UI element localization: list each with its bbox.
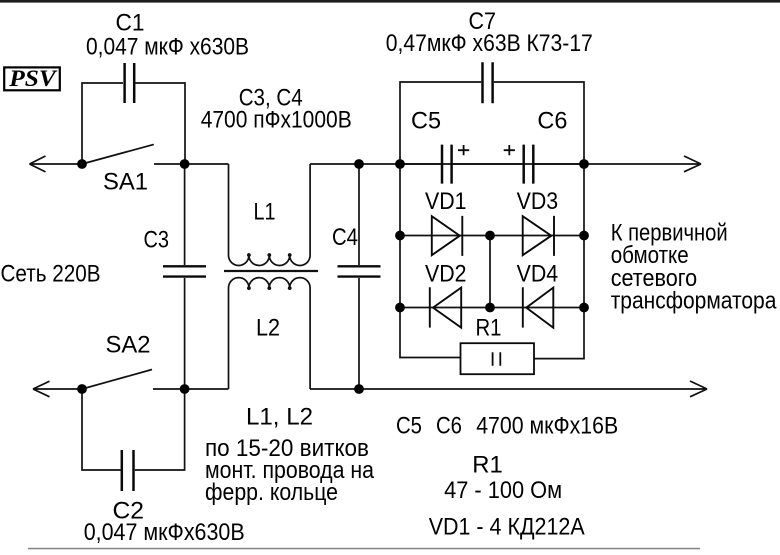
svg-text:VD1 - 4 КД212А: VD1 - 4 КД212А	[429, 514, 585, 541]
wire top rail SA1 contact to L1	[154, 163, 229, 165]
node VD2 row middle	[485, 303, 495, 313]
svg-text:C3: C3	[144, 227, 170, 254]
svg-text:4700 пФх1000В: 4700 пФх1000В	[201, 107, 352, 134]
capacitor C5 plates	[442, 145, 452, 184]
node top rail bridge left	[395, 159, 405, 169]
capacitor C2 loop wire	[82, 389, 185, 470]
capacitor C6 plates	[524, 145, 534, 184]
node bottom rail C4	[354, 384, 364, 394]
svg-text:VD1: VD1	[425, 188, 467, 215]
node top rail bridge right	[579, 159, 589, 169]
node bottom rail SA2 left	[77, 384, 87, 394]
capacitor C1 plates	[125, 63, 135, 103]
svg-text:4700 мкФх16В: 4700 мкФх16В	[476, 413, 618, 440]
capacitor C7 plates	[483, 62, 493, 103]
node VD1 row left	[395, 231, 405, 241]
capacitor C4 lead wires	[358, 164, 360, 389]
wire top rail C5 C6 section	[400, 163, 584, 165]
svg-text:ферр. кольце: ферр. кольце	[205, 479, 338, 506]
svg-text:C5: C5	[411, 108, 441, 135]
diode VD3	[523, 216, 554, 256]
svg-text:С6: С6	[436, 413, 462, 440]
node VD2 row left	[395, 303, 405, 313]
svg-text:SA1: SA1	[103, 169, 148, 196]
diode VD1	[432, 216, 463, 256]
svg-text:VD3: VD3	[517, 188, 559, 215]
node bottom rail C3	[180, 384, 190, 394]
node VD1 row middle	[485, 231, 495, 241]
wire bridge right leg	[534, 164, 584, 359]
wire bridge middle vertical	[489, 236, 491, 308]
node top rail SA1 left	[77, 159, 87, 169]
wire bottom rail left with arrow	[33, 381, 82, 397]
wire VD2 VD4 row	[400, 307, 584, 309]
svg-text:R1: R1	[476, 315, 502, 342]
capacitor C6 polarity plus	[504, 145, 515, 155]
bottom border line	[28, 548, 700, 550]
wire top rail L1 to right arrow	[310, 156, 701, 172]
svg-text:Сеть 220В: Сеть 220В	[1, 261, 101, 288]
inductor L2 winding	[229, 278, 311, 389]
svg-text:R1: R1	[472, 452, 503, 479]
svg-text:0,047 мкФх630В: 0,047 мкФх630В	[84, 519, 245, 546]
capacitor C2 plates	[122, 450, 134, 491]
switch SA2	[82, 370, 152, 390]
wire bridge left leg	[400, 164, 460, 358]
svg-text:0,047 мкФ х630В: 0,047 мкФ х630В	[86, 34, 249, 61]
wire VD1 VD3 row	[400, 235, 584, 237]
capacitor C5 polarity plus	[458, 145, 469, 155]
svg-text:C6: C6	[537, 108, 567, 135]
svg-text:С5: С5	[396, 413, 422, 440]
svg-text:C4: C4	[332, 224, 358, 251]
ferrite core line	[224, 270, 318, 272]
PSV logo	[4, 66, 60, 91]
wire bottom rail L2 to right arrow	[310, 381, 707, 397]
svg-text:PSV: PSV	[8, 66, 57, 91]
wire bottom rail SA2 contact to L2	[153, 388, 229, 390]
node VD1 row right	[579, 231, 589, 241]
svg-text:SA2: SA2	[106, 332, 151, 359]
svg-text:трансформатора: трансформатора	[611, 288, 777, 315]
node VD2 row right	[579, 303, 589, 313]
svg-text:L1, L2: L1, L2	[246, 404, 313, 431]
svg-text:VD2: VD2	[425, 261, 467, 288]
inductor L1 winding	[229, 164, 311, 266]
capacitor C3 lead wires	[184, 164, 186, 389]
svg-text:C1: C1	[116, 10, 145, 37]
capacitor C7 loop wire	[400, 82, 584, 164]
svg-text:47 - 100 Ом: 47 - 100 Ом	[444, 477, 562, 504]
capacitor C4 plates	[338, 266, 381, 276]
node top rail C3	[180, 159, 190, 169]
resistor R1 body	[461, 343, 535, 374]
svg-text:0,47мкФ х63В К73-17: 0,47мкФ х63В К73-17	[386, 30, 593, 57]
wire top rail left with arrow	[30, 156, 83, 172]
capacitor C3 plates	[163, 266, 206, 276]
svg-text:VD4: VD4	[517, 261, 559, 288]
node top rail C4	[354, 159, 364, 169]
capacitor C1 loop wire	[82, 83, 185, 164]
diode VD2	[430, 287, 461, 328]
svg-text:L1: L1	[254, 199, 276, 226]
switch SA1	[82, 144, 154, 164]
diode VD4	[523, 287, 554, 328]
svg-text:L2: L2	[256, 315, 280, 342]
top border bar	[0, 0, 780, 3]
